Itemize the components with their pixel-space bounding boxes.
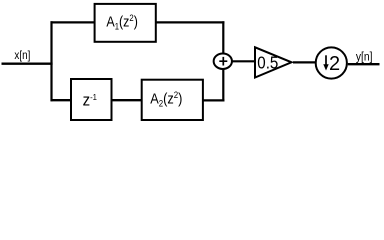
svg-text:x[n]: x[n] xyxy=(14,49,30,62)
downsampler circle xyxy=(316,47,347,78)
svg-text:A1(z2): A1(z2) xyxy=(106,12,137,31)
block A1 xyxy=(95,4,156,42)
wire A2 to sum elbow xyxy=(203,99,225,101)
summing junction xyxy=(214,53,232,68)
wire sum to gain xyxy=(233,60,256,62)
svg-text:z-1: z-1 xyxy=(83,92,98,110)
wire branch vertical xyxy=(50,21,52,101)
down arrow xyxy=(325,55,327,65)
wire branch to z-1 xyxy=(51,99,72,101)
wire gain to downsampler xyxy=(293,61,316,63)
wire z-1 to A2 xyxy=(111,99,142,101)
block z^-1 xyxy=(71,79,112,120)
wire input x[n] xyxy=(2,63,53,65)
wire elbow down to sum xyxy=(222,21,224,53)
wire branch to A1 xyxy=(51,21,95,23)
svg-text:2: 2 xyxy=(329,53,340,75)
svg-text:A2(z2): A2(z2) xyxy=(150,90,182,109)
wire output xyxy=(348,63,380,65)
svg-text:y[n]: y[n] xyxy=(356,51,373,64)
plus sign xyxy=(219,57,227,66)
svg-text:0.5: 0.5 xyxy=(257,52,278,73)
block A2 xyxy=(142,80,203,120)
wire A1 to sum elbow xyxy=(156,21,225,23)
gain triangle 0.5 xyxy=(255,47,292,77)
wire elbow up to sum xyxy=(222,70,224,102)
